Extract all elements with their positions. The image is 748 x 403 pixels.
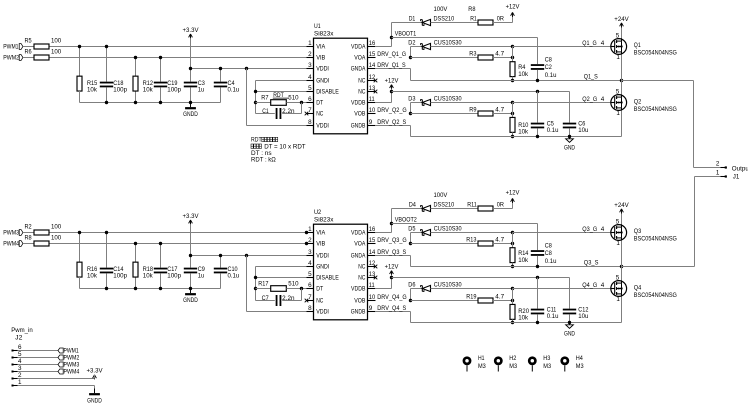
svg-text:R2: R2 xyxy=(25,224,33,231)
svg-text:NC: NC xyxy=(358,78,365,85)
svg-text:C8: C8 xyxy=(545,242,553,249)
svg-text:PWM4: PWM4 xyxy=(64,369,80,376)
svg-text:BSC054N04NSG: BSC054N04NSG xyxy=(634,236,677,243)
svg-text:1: 1 xyxy=(308,226,312,233)
svg-text:PWM2: PWM2 xyxy=(3,54,19,61)
svg-text:4: 4 xyxy=(308,74,312,81)
svg-text:VOA: VOA xyxy=(354,241,366,248)
svg-text:5: 5 xyxy=(616,88,620,95)
svg-text:10k: 10k xyxy=(518,257,529,264)
svg-text:VDDI: VDDI xyxy=(316,309,329,316)
svg-text:R17: R17 xyxy=(258,280,269,287)
svg-text:D2: D2 xyxy=(408,40,416,47)
svg-text:R1: R1 xyxy=(470,15,477,22)
svg-text:C7: C7 xyxy=(262,295,270,302)
svg-text:GNDA: GNDA xyxy=(351,66,366,73)
svg-text:VDDA: VDDA xyxy=(351,230,366,237)
svg-text:2: 2 xyxy=(716,161,720,168)
svg-text:M3: M3 xyxy=(509,363,517,370)
svg-text:Si823x: Si823x xyxy=(314,30,334,37)
svg-text:15: 15 xyxy=(369,237,376,244)
svg-text:VIB: VIB xyxy=(316,55,325,62)
svg-text:10k: 10k xyxy=(518,129,529,136)
svg-text:VIA: VIA xyxy=(316,230,326,237)
svg-text:J2: J2 xyxy=(15,334,23,341)
svg-text:10k: 10k xyxy=(143,87,154,94)
svg-text:0.1u: 0.1u xyxy=(228,273,240,280)
svg-text:CUS10S30: CUS10S30 xyxy=(434,282,462,289)
svg-text:DRV_Q3_S: DRV_Q3_S xyxy=(377,249,406,256)
svg-text:1: 1 xyxy=(716,170,720,177)
svg-text:NC: NC xyxy=(358,89,365,96)
svg-text:R8: R8 xyxy=(25,235,33,242)
svg-text:4.7: 4.7 xyxy=(495,294,504,301)
svg-text:0.1u: 0.1u xyxy=(545,72,557,79)
svg-text:VOB: VOB xyxy=(354,298,365,305)
svg-text:DRV_Q1_S: DRV_Q1_S xyxy=(377,62,405,69)
svg-text:3: 3 xyxy=(308,62,312,69)
svg-text:U2: U2 xyxy=(314,209,322,216)
svg-text:1u: 1u xyxy=(198,273,205,280)
svg-text:+24V: +24V xyxy=(614,202,629,209)
svg-text:Q4_G: Q4_G xyxy=(582,282,597,289)
svg-text:DRV_Q4_G: DRV_Q4_G xyxy=(377,294,406,301)
svg-text:1u: 1u xyxy=(198,87,205,94)
svg-text:NC: NC xyxy=(316,298,323,305)
svg-text:15: 15 xyxy=(369,51,376,58)
svg-text:1: 1 xyxy=(616,296,620,303)
svg-text:100V: 100V xyxy=(434,192,449,199)
svg-text:D6: D6 xyxy=(408,282,416,289)
svg-text:4.7: 4.7 xyxy=(495,237,504,244)
svg-text:C8: C8 xyxy=(545,56,553,63)
svg-text:2.2n: 2.2n xyxy=(282,295,295,302)
svg-text:16: 16 xyxy=(369,40,376,47)
svg-text:7: 7 xyxy=(308,294,312,301)
svg-text:DRV_Q2_G: DRV_Q2_G xyxy=(377,107,406,114)
svg-text:DRV_Q3_G: DRV_Q3_G xyxy=(377,237,406,244)
svg-text:GND: GND xyxy=(564,331,575,338)
svg-text:3: 3 xyxy=(308,249,312,256)
svg-text:C1: C1 xyxy=(262,108,269,115)
svg-text:VIA: VIA xyxy=(316,44,326,51)
svg-text:510: 510 xyxy=(288,280,299,287)
svg-text:4.7: 4.7 xyxy=(495,107,504,114)
svg-text:10u: 10u xyxy=(578,313,589,320)
svg-text:4: 4 xyxy=(601,40,605,47)
svg-text:Q1_S: Q1_S xyxy=(584,73,598,80)
svg-text:5: 5 xyxy=(616,274,620,281)
svg-text:GNDB: GNDB xyxy=(351,123,366,130)
svg-text:GNDI: GNDI xyxy=(316,78,329,85)
svg-text:R11: R11 xyxy=(467,201,477,208)
svg-text:GNDI: GNDI xyxy=(316,264,329,271)
svg-text:Q2: Q2 xyxy=(634,99,642,106)
svg-text:0.1u: 0.1u xyxy=(228,87,240,94)
svg-text:CUS10S30: CUS10S30 xyxy=(434,226,462,233)
svg-text:Q1: Q1 xyxy=(634,42,641,49)
svg-text:GNDD: GNDD xyxy=(183,297,198,304)
svg-text:RDT : kΩ: RDT : kΩ xyxy=(251,157,276,164)
svg-text:10: 10 xyxy=(369,107,376,114)
svg-text:9: 9 xyxy=(369,305,373,312)
svg-text:5: 5 xyxy=(616,32,620,39)
svg-text:M3: M3 xyxy=(478,363,486,370)
svg-text:DT: DT xyxy=(316,286,323,293)
svg-text:+12V: +12V xyxy=(506,190,521,197)
svg-text:CUS10S30: CUS10S30 xyxy=(434,40,462,47)
svg-text:R8: R8 xyxy=(468,6,476,13)
svg-text:BSC054N04NSG: BSC054N04NSG xyxy=(634,50,677,57)
svg-text:4: 4 xyxy=(601,226,605,233)
svg-text:1: 1 xyxy=(616,54,620,61)
svg-text:Q4: Q4 xyxy=(634,285,642,292)
svg-text:16: 16 xyxy=(369,226,376,233)
svg-text:+12V: +12V xyxy=(506,4,521,11)
svg-text:DISABLE: DISABLE xyxy=(316,89,339,96)
svg-text:8: 8 xyxy=(308,119,312,126)
svg-text:PWM3: PWM3 xyxy=(3,229,19,236)
svg-text:GND: GND xyxy=(564,145,575,152)
svg-text:+3.3V: +3.3V xyxy=(87,368,104,375)
svg-text:VIB: VIB xyxy=(316,241,325,248)
svg-text:Q3_G: Q3_G xyxy=(582,226,597,233)
svg-text:0R: 0R xyxy=(497,201,505,208)
svg-text:10: 10 xyxy=(369,294,376,301)
svg-text:NC: NC xyxy=(358,264,365,271)
svg-text:11: 11 xyxy=(369,96,375,103)
svg-text:D5: D5 xyxy=(408,226,416,233)
svg-text:10k: 10k xyxy=(143,273,154,280)
svg-text:VDDI: VDDI xyxy=(316,123,329,130)
svg-text:4: 4 xyxy=(601,96,605,103)
svg-text:C8: C8 xyxy=(545,250,553,257)
svg-text:J1: J1 xyxy=(733,173,740,180)
svg-text:GNDB: GNDB xyxy=(351,309,366,316)
svg-text:100p: 100p xyxy=(113,87,127,94)
svg-text:VOB: VOB xyxy=(354,111,365,118)
svg-text:DSS210: DSS210 xyxy=(434,201,455,208)
svg-text:DRV_Q4_S: DRV_Q4_S xyxy=(377,305,406,312)
svg-text:Q3_S: Q3_S xyxy=(584,259,599,266)
svg-text:NC: NC xyxy=(358,275,365,282)
svg-text:H4: H4 xyxy=(576,355,584,362)
svg-text:VBOOT1: VBOOT1 xyxy=(395,31,417,38)
svg-text:2: 2 xyxy=(308,237,312,244)
svg-text:7: 7 xyxy=(308,107,312,114)
svg-text:1: 1 xyxy=(616,110,620,117)
svg-text:0.1u: 0.1u xyxy=(547,127,559,134)
svg-text:5: 5 xyxy=(616,218,620,225)
svg-text:D1: D1 xyxy=(409,15,416,22)
svg-text:+3.3V: +3.3V xyxy=(183,213,200,220)
svg-text:VBOOT2: VBOOT2 xyxy=(395,217,417,224)
svg-text:VDDA: VDDA xyxy=(351,44,366,51)
svg-text:6: 6 xyxy=(308,96,312,103)
svg-text:100p: 100p xyxy=(113,273,127,280)
svg-text:PWM2: PWM2 xyxy=(64,355,80,362)
svg-text:0.1u: 0.1u xyxy=(547,313,559,320)
svg-text:100V: 100V xyxy=(434,6,449,13)
svg-text:PWM3: PWM3 xyxy=(64,362,80,369)
svg-text:0.1u: 0.1u xyxy=(545,258,557,265)
svg-text:10k: 10k xyxy=(87,273,98,280)
svg-text:H3: H3 xyxy=(543,355,551,362)
svg-text:100: 100 xyxy=(51,38,62,45)
svg-text:M3: M3 xyxy=(543,363,551,370)
svg-text:Output: Output xyxy=(732,165,748,172)
svg-text:GNDA: GNDA xyxy=(351,253,366,260)
svg-text:VOA: VOA xyxy=(354,55,366,62)
svg-text:100: 100 xyxy=(51,224,62,231)
svg-text:R13: R13 xyxy=(466,237,477,244)
svg-text:DSS210: DSS210 xyxy=(434,15,455,22)
svg-text:1: 1 xyxy=(616,240,620,247)
svg-text:+3.3V: +3.3V xyxy=(183,27,200,34)
svg-text:Si823x: Si823x xyxy=(314,216,334,223)
svg-text:4: 4 xyxy=(308,260,312,267)
svg-text:100: 100 xyxy=(51,49,62,56)
svg-text:2.2n: 2.2n xyxy=(282,108,295,115)
svg-text:11: 11 xyxy=(369,282,375,289)
svg-text:6: 6 xyxy=(308,282,312,289)
svg-text:10k: 10k xyxy=(518,71,529,78)
svg-text:H1: H1 xyxy=(478,355,485,362)
svg-text:PWM1: PWM1 xyxy=(3,43,19,50)
svg-text:100p: 100p xyxy=(167,87,181,94)
svg-text:VDDB: VDDB xyxy=(351,286,365,293)
svg-text:100p: 100p xyxy=(167,273,181,280)
svg-text:Pwm_in: Pwm_in xyxy=(11,327,33,334)
svg-text:R7: R7 xyxy=(261,94,269,101)
svg-text:VDDI: VDDI xyxy=(316,66,329,73)
svg-text:4: 4 xyxy=(601,282,605,289)
svg-text:1: 1 xyxy=(308,40,312,47)
svg-text:100: 100 xyxy=(51,235,62,242)
svg-text:12: 12 xyxy=(369,260,376,267)
svg-text:+12V: +12V xyxy=(385,77,400,84)
svg-text:5: 5 xyxy=(308,85,312,92)
svg-text:10u: 10u xyxy=(578,127,589,134)
svg-text:14: 14 xyxy=(369,62,376,69)
svg-text:DRV_Q1_G: DRV_Q1_G xyxy=(377,51,406,58)
svg-text:4.7: 4.7 xyxy=(495,51,504,58)
svg-text:10k: 10k xyxy=(518,315,529,322)
svg-text:Q2_G: Q2_G xyxy=(582,96,597,103)
svg-text:DISABLE: DISABLE xyxy=(316,275,339,282)
svg-text:U1: U1 xyxy=(314,23,321,30)
svg-text:PWM1: PWM1 xyxy=(64,348,80,355)
svg-text:D3: D3 xyxy=(408,96,416,103)
svg-text:0R: 0R xyxy=(497,15,505,22)
svg-text:13: 13 xyxy=(369,271,376,278)
svg-text:+12V: +12V xyxy=(385,263,400,270)
svg-text:C2: C2 xyxy=(545,64,553,71)
svg-text:GNDD: GNDD xyxy=(87,398,102,403)
svg-text:14: 14 xyxy=(369,249,376,256)
svg-text:BSC054N04NSG: BSC054N04NSG xyxy=(634,106,677,113)
svg-text:10k: 10k xyxy=(87,87,98,94)
svg-text:GNDD: GNDD xyxy=(183,111,198,118)
svg-text:+24V: +24V xyxy=(614,16,629,23)
svg-text:13: 13 xyxy=(369,85,376,92)
svg-text:VDDI: VDDI xyxy=(316,253,329,260)
svg-text:RDT: RDT xyxy=(251,137,262,144)
svg-text:PWM4: PWM4 xyxy=(3,240,19,247)
svg-text:R5: R5 xyxy=(25,38,33,45)
svg-text:5: 5 xyxy=(308,271,312,278)
svg-text:R19: R19 xyxy=(466,294,477,301)
svg-text:VDDB: VDDB xyxy=(351,100,365,107)
svg-text:Q1_G: Q1_G xyxy=(582,40,596,47)
svg-text:Q3: Q3 xyxy=(634,228,642,235)
svg-text:M3: M3 xyxy=(576,363,584,370)
svg-text:DT: DT xyxy=(316,100,323,107)
svg-text:R6: R6 xyxy=(25,49,33,56)
svg-text:H2: H2 xyxy=(509,355,517,362)
svg-text:CUS10S30: CUS10S30 xyxy=(434,96,462,103)
svg-text:R3: R3 xyxy=(469,51,477,58)
svg-text:2: 2 xyxy=(308,51,312,58)
svg-text:R9: R9 xyxy=(469,107,477,114)
svg-text:8: 8 xyxy=(308,305,312,312)
svg-text:D4: D4 xyxy=(409,201,417,208)
svg-text:510: 510 xyxy=(288,94,299,101)
svg-text:BSC054N04NSG: BSC054N04NSG xyxy=(634,292,677,299)
svg-text:12: 12 xyxy=(369,74,376,81)
svg-text:DRV_Q2_S: DRV_Q2_S xyxy=(377,119,406,126)
svg-text:9: 9 xyxy=(369,119,373,126)
svg-text:NC: NC xyxy=(316,111,323,118)
